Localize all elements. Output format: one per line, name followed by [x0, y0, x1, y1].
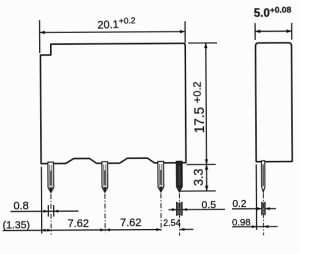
- svg-text:+0.2: +0.2: [119, 15, 136, 26]
- svg-text:7.62: 7.62: [120, 217, 141, 229]
- svg-text:2.54: 2.54: [163, 218, 181, 228]
- svg-text:(1.35): (1.35): [3, 219, 31, 231]
- svg-text:+0.08: +0.08: [270, 4, 292, 14]
- svg-text:3.3: 3.3: [192, 169, 206, 187]
- svg-text:7.62: 7.62: [68, 218, 89, 230]
- svg-text:5.0: 5.0: [254, 8, 270, 20]
- svg-text:0.5: 0.5: [201, 199, 216, 211]
- svg-text:17.5 +0.2: 17.5 +0.2: [192, 81, 207, 133]
- svg-text:0.8: 0.8: [13, 200, 28, 212]
- svg-text:0.98: 0.98: [232, 217, 251, 228]
- svg-text:20.1: 20.1: [97, 19, 119, 32]
- svg-text:0.2: 0.2: [232, 199, 246, 210]
